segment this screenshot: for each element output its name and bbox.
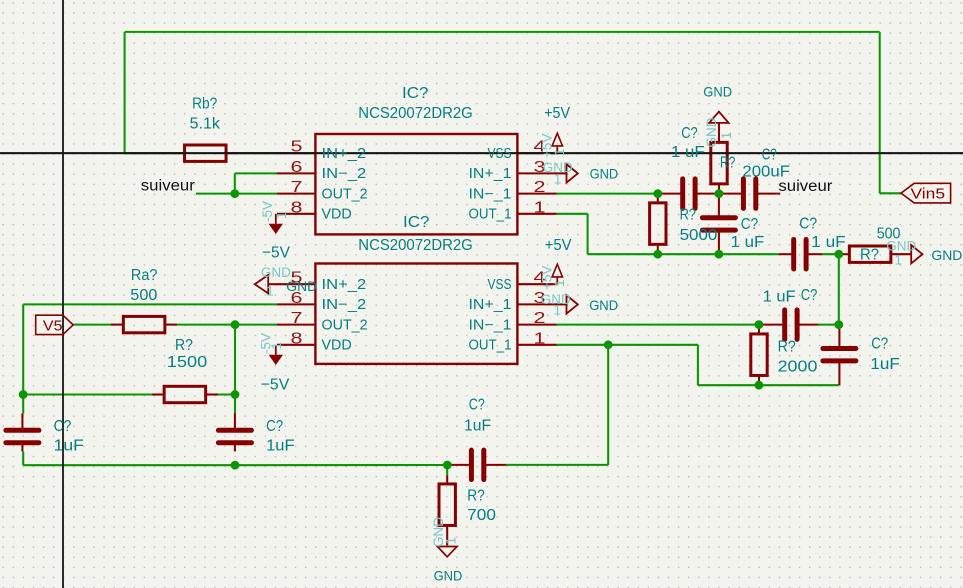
svg-text:GND: GND <box>931 248 962 263</box>
svg-text:GND: GND <box>261 265 291 280</box>
svg-text:C?: C? <box>871 336 888 353</box>
svg-text:R?: R? <box>467 488 485 505</box>
svg-text:1: 1 <box>534 199 546 216</box>
svg-text:1uF: 1uF <box>54 438 85 455</box>
svg-text:GND: GND <box>886 238 916 253</box>
svg-text:7: 7 <box>291 310 303 327</box>
svg-text:C?: C? <box>741 216 758 233</box>
svg-text:1: 1 <box>444 537 459 545</box>
svg-text:NCS20072DR2G: NCS20072DR2G <box>358 237 473 254</box>
svg-text:1uF: 1uF <box>870 356 900 373</box>
svg-text:R?: R? <box>860 247 879 264</box>
svg-text:suiveur: suiveur <box>778 178 832 195</box>
svg-text:V5: V5 <box>43 318 63 335</box>
svg-text:VSS: VSS <box>488 146 512 162</box>
svg-text:VDD: VDD <box>322 207 352 223</box>
svg-text:8: 8 <box>291 330 303 347</box>
svg-text:C?: C? <box>801 287 818 304</box>
svg-text:C?: C? <box>762 146 777 163</box>
svg-text:IN+_1: IN+_1 <box>469 297 512 313</box>
svg-text:OUT_1: OUT_1 <box>469 207 512 223</box>
svg-text:−5V: −5V <box>262 245 290 262</box>
svg-text:1: 1 <box>554 303 562 318</box>
svg-text:IC?: IC? <box>403 214 430 231</box>
svg-text:VSS: VSS <box>488 277 512 293</box>
svg-text:8: 8 <box>291 199 303 216</box>
svg-text:C?: C? <box>266 418 283 435</box>
svg-text:IN+_2: IN+_2 <box>322 277 367 293</box>
svg-text:OUT_1: OUT_1 <box>469 338 512 354</box>
svg-text:5000: 5000 <box>680 227 718 244</box>
svg-text:GND: GND <box>589 298 618 313</box>
svg-text:IN−_2: IN−_2 <box>322 297 367 313</box>
svg-text:6: 6 <box>291 290 303 307</box>
svg-text:1: 1 <box>552 279 567 287</box>
svg-text:1uF: 1uF <box>266 438 295 455</box>
svg-text:suiveur: suiveur <box>141 177 195 194</box>
svg-text:1: 1 <box>274 211 289 219</box>
svg-text:IN−_1: IN−_1 <box>469 317 512 333</box>
svg-text:-5V: -5V <box>260 201 275 222</box>
svg-text:OUT_2: OUT_2 <box>322 186 368 202</box>
svg-text:+5V: +5V <box>544 105 570 122</box>
svg-text:1500: 1500 <box>167 354 208 371</box>
svg-text:1: 1 <box>895 253 903 268</box>
svg-text:2: 2 <box>534 310 546 327</box>
svg-text:7: 7 <box>291 179 303 196</box>
svg-text:Vin5: Vin5 <box>911 186 946 203</box>
svg-text:1: 1 <box>266 283 274 298</box>
svg-text:6: 6 <box>291 159 303 176</box>
svg-text:5: 5 <box>291 139 303 156</box>
svg-text:C?: C? <box>54 418 72 435</box>
svg-text:IN−_1: IN−_1 <box>469 186 512 202</box>
svg-text:700: 700 <box>467 507 496 524</box>
svg-text:IN−_2: IN−_2 <box>322 166 367 182</box>
svg-text:1 uF: 1 uF <box>731 234 765 251</box>
svg-text:OUT_2: OUT_2 <box>322 317 368 333</box>
svg-text:1: 1 <box>719 132 734 140</box>
svg-text:Ra?: Ra? <box>131 267 158 284</box>
svg-text:IN+_2: IN+_2 <box>322 146 367 162</box>
svg-text:C?: C? <box>799 216 817 233</box>
svg-text:IC?: IC? <box>402 85 429 102</box>
svg-text:IN+_1: IN+_1 <box>469 166 512 182</box>
svg-text:1: 1 <box>534 330 546 347</box>
svg-text:+5V: +5V <box>545 237 572 254</box>
svg-text:GND: GND <box>434 569 463 584</box>
svg-text:VDD: VDD <box>322 338 352 354</box>
svg-text:NCS20072DR2G: NCS20072DR2G <box>358 105 473 122</box>
svg-text:1: 1 <box>269 342 284 350</box>
svg-text:R?: R? <box>778 338 796 355</box>
svg-text:C?: C? <box>681 125 697 142</box>
svg-text:1: 1 <box>554 171 562 186</box>
svg-text:R?: R? <box>680 207 696 224</box>
svg-text:5.1k: 5.1k <box>190 116 221 133</box>
svg-text:500: 500 <box>130 287 157 304</box>
svg-text:1 uF: 1 uF <box>671 144 705 161</box>
svg-text:GND: GND <box>703 84 732 99</box>
svg-text:Rb?: Rb? <box>192 96 217 113</box>
svg-text:5: 5 <box>291 270 303 287</box>
svg-text:2: 2 <box>534 179 546 196</box>
svg-text:GND: GND <box>704 117 719 147</box>
svg-text:1uF: 1uF <box>464 417 491 434</box>
svg-text:C?: C? <box>469 397 485 414</box>
svg-text:R?: R? <box>720 155 735 172</box>
svg-text:1: 1 <box>552 148 567 156</box>
svg-text:1 uF: 1 uF <box>763 288 796 305</box>
svg-text:2000: 2000 <box>778 358 818 375</box>
svg-text:R?: R? <box>175 337 193 354</box>
svg-text:GND: GND <box>590 166 619 181</box>
svg-text:−5V: −5V <box>261 377 290 394</box>
svg-text:1 uF: 1 uF <box>811 234 846 251</box>
